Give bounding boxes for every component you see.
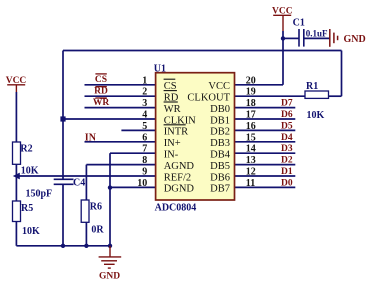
svg-text:2: 2 [142, 87, 147, 98]
svg-text:150pF: 150pF [26, 188, 53, 199]
svg-text:R6: R6 [90, 202, 102, 213]
svg-text:C1: C1 [293, 17, 305, 28]
svg-text:13: 13 [246, 155, 256, 166]
svg-text:D0: D0 [281, 178, 293, 188]
svg-text:14: 14 [246, 144, 256, 155]
svg-text:9: 9 [142, 167, 147, 178]
svg-text:5: 5 [142, 121, 147, 132]
svg-text:DB4: DB4 [210, 150, 231, 161]
svg-text:CLKOUT: CLKOUT [187, 93, 230, 104]
svg-text:D7: D7 [281, 99, 293, 109]
svg-text:IN+: IN+ [164, 138, 181, 149]
svg-text:D4: D4 [281, 133, 293, 143]
svg-text:D6: D6 [281, 110, 293, 120]
svg-text:DB7: DB7 [210, 184, 230, 195]
svg-text:4: 4 [142, 110, 147, 121]
svg-text:R2: R2 [20, 143, 32, 154]
svg-text:10K: 10K [307, 110, 325, 121]
svg-text:R5: R5 [21, 203, 33, 214]
svg-text:DGND: DGND [164, 184, 195, 195]
svg-text:0.1uF: 0.1uF [306, 29, 328, 39]
svg-text:15: 15 [246, 132, 256, 143]
svg-text:DB6: DB6 [210, 172, 230, 183]
svg-text:VCC: VCC [208, 81, 230, 92]
svg-text:7: 7 [142, 144, 147, 155]
svg-text:1: 1 [142, 75, 147, 86]
svg-text:D1: D1 [281, 167, 293, 177]
svg-text:AGND: AGND [164, 161, 195, 172]
svg-text:19: 19 [246, 87, 256, 98]
svg-text:16: 16 [246, 121, 256, 132]
svg-text:GND: GND [99, 272, 120, 282]
svg-text:GND: GND [344, 34, 366, 45]
svg-text:D5: D5 [281, 121, 293, 131]
svg-text:D2: D2 [281, 156, 293, 166]
svg-text:11: 11 [246, 178, 255, 189]
svg-text:17: 17 [246, 110, 256, 121]
svg-text:IN: IN [85, 133, 97, 144]
svg-text:ADC0804: ADC0804 [155, 202, 197, 213]
svg-text:20: 20 [246, 75, 256, 86]
svg-text:DB5: DB5 [210, 161, 230, 172]
svg-text:D3: D3 [281, 144, 293, 154]
svg-text:INTR: INTR [164, 127, 189, 138]
svg-text:R1: R1 [306, 81, 318, 92]
svg-text:0R: 0R [91, 225, 104, 236]
svg-text:DB1: DB1 [210, 115, 230, 126]
svg-text:DB0: DB0 [210, 104, 230, 115]
svg-text:REF/2: REF/2 [164, 172, 191, 183]
svg-text:RD: RD [94, 87, 108, 97]
svg-text:10K: 10K [21, 166, 39, 177]
svg-text:10: 10 [137, 178, 147, 189]
svg-text:12: 12 [246, 167, 256, 178]
svg-text:3: 3 [142, 98, 147, 109]
svg-text:10K: 10K [22, 226, 40, 237]
svg-text:CS: CS [95, 75, 107, 85]
svg-text:U1: U1 [154, 63, 166, 74]
svg-text:IN-: IN- [164, 150, 179, 161]
svg-text:WR: WR [93, 98, 110, 108]
svg-text:18: 18 [246, 98, 256, 109]
svg-text:WR: WR [164, 104, 181, 115]
svg-text:8: 8 [142, 155, 147, 166]
svg-text:DB2: DB2 [210, 127, 230, 138]
svg-text:C4: C4 [73, 178, 85, 189]
svg-text:6: 6 [142, 132, 147, 143]
svg-text:DB3: DB3 [210, 138, 230, 149]
